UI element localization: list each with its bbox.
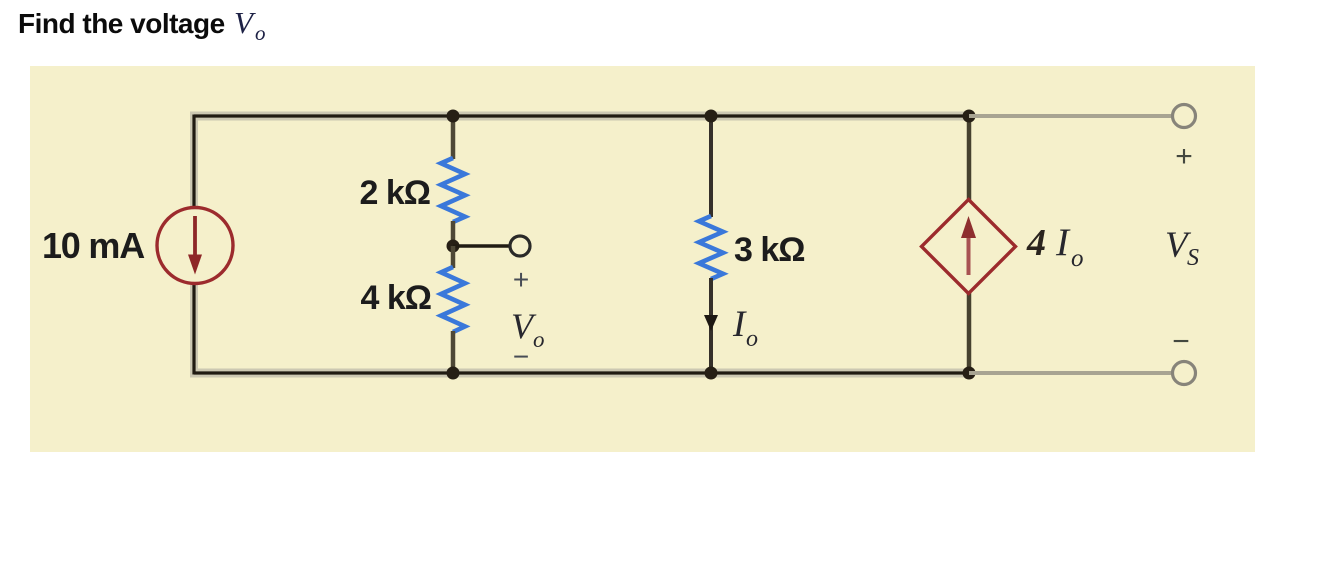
current source I1 arrowhead [188,255,202,275]
wire: left branch upper segment [192,115,195,209]
node junction mid (Vo tap) [447,240,460,253]
node junction top-mid [705,110,718,123]
wire: left branch lower segment [192,284,195,375]
wire: 4k top lead [451,246,456,268]
node junction top-right [963,110,976,123]
resistor R2 4k zigzag [441,267,465,332]
label Vs [1165,225,1199,271]
wire: 2k bottom lead [451,221,456,246]
dependent source arrowhead [961,216,976,238]
wire: 2k top lead [451,116,456,159]
node junction bottom-right [963,367,976,380]
wire: gray lead to bottom terminal [969,371,1171,375]
wire: Vo stub [453,244,509,248]
wire: dependent source top lead [967,116,972,201]
label 4 Io [1026,221,1084,272]
circuit background panel [30,66,1255,452]
wire: 4k bottom lead [451,331,456,373]
terminal: Vs top open circle [1173,105,1196,128]
current source I1 circle [157,208,233,284]
node junction top-left [447,110,460,123]
title: Find the voltage Vo [18,5,266,45]
svg-text:V: V [234,5,256,40]
svg-text:o: o [533,327,545,352]
svg-text:4: 4 [1026,222,1046,264]
wire: 3k top lead [709,116,713,217]
terminal: Vs bottom open circle [1173,362,1196,385]
dependent source arrow shaft [967,232,971,275]
svg-text:S: S [1187,245,1199,271]
svg-text:4 kΩ: 4 kΩ [360,279,431,317]
svg-text:10 mA: 10 mA [42,225,145,266]
wire: bottom rail halo [190,369,969,378]
node junction bottom-mid [705,367,718,380]
svg-text:o: o [746,326,758,352]
wire: bottom rail [194,371,969,374]
node junction bottom-left [447,367,460,380]
terminal: Vo open circle [510,236,530,256]
wire: dependent source bottom lead [967,292,972,373]
svg-text:+: + [1175,140,1193,173]
svg-text:o: o [1071,245,1084,272]
svg-text:+: + [513,264,529,295]
wire: top rail [194,114,969,117]
current arrow Io head [704,315,718,331]
wire: gray lead to top terminal [969,114,1171,118]
svg-text:2 kΩ: 2 kΩ [359,174,430,212]
wire: left loop halo upper [190,112,198,207]
svg-text:I: I [732,304,747,345]
svg-text:Find the voltage: Find the voltage [18,8,225,39]
svg-text:o: o [255,21,266,45]
svg-text:3 kΩ: 3 kΩ [734,231,805,269]
svg-text:−: − [513,341,529,372]
resistor R3 3k zigzag [699,216,723,279]
current source I1 arrow shaft [193,216,197,256]
svg-text:−: − [1172,325,1190,358]
wire: top rail halo [190,112,969,121]
label Io [732,304,758,352]
resistor R1 2k zigzag [441,158,465,222]
svg-text:I: I [1055,221,1071,264]
wire: 3k bottom lead [709,278,713,373]
wire: left loop halo lower [190,285,198,377]
label Vo [511,306,545,352]
dependent current source diamond [922,200,1016,294]
